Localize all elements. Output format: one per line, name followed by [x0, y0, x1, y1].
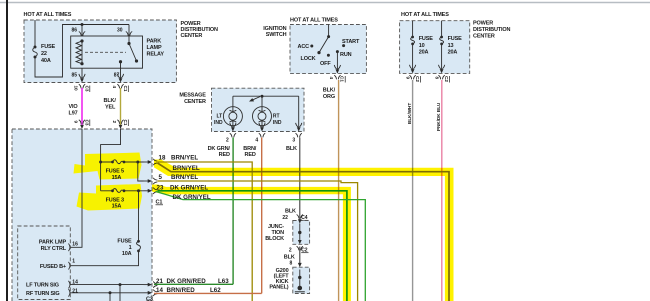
svg-text:RT: RT [273, 114, 280, 120]
power distribution center box (left) [24, 20, 176, 83]
svg-text:FUSE 5: FUSE 5 [106, 169, 124, 175]
svg-text:2: 2 [289, 247, 292, 253]
ignition output connector collar [334, 75, 340, 79]
svg-text:C3: C3 [84, 120, 89, 126]
VIO wire collar above junction block [79, 120, 85, 124]
fuse 13 connector collar [438, 75, 444, 79]
svg-text:IND: IND [214, 120, 223, 126]
wire 21 DK GRN/RED L63 [154, 283, 233, 285]
wire VIO continuation to pin 16 [70, 129, 82, 247]
label FUSE 10 20A [419, 36, 434, 56]
svg-text:14: 14 [156, 287, 163, 294]
relay mechanical link (dashed) [85, 51, 126, 53]
svg-text:BLK: BLK [285, 208, 296, 214]
svg-text:MESSAGE: MESSAGE [179, 93, 206, 99]
label FUSE 5 15A [106, 169, 124, 181]
wire BRN/YEL highlighted run [158, 163, 450, 301]
wire fuse22 feed loop [35, 20, 129, 77]
VIO wire arrow into junction block [80, 125, 84, 129]
fuse F10 element [411, 36, 415, 46]
wire BLK/WHT vertical [412, 80, 414, 301]
svg-text:FUSE 3: FUSE 3 [106, 197, 124, 203]
svg-text:BRN/RED: BRN/RED [167, 287, 196, 294]
pin 87 connector collar below box [117, 84, 123, 88]
lamp RT IND [253, 96, 272, 126]
svg-text:13: 13 [448, 43, 454, 49]
label BLK/ORG [323, 87, 336, 100]
relay switch blade [127, 36, 138, 63]
svg-text:FUSE: FUSE [419, 36, 434, 42]
label FUSE 13 20A [448, 36, 463, 56]
svg-text:BLOCK: BLOCK [265, 236, 284, 242]
node RF branch [109, 291, 112, 294]
label LT IND [214, 114, 223, 126]
pin 85 connector collar below box [79, 84, 85, 88]
svg-text:23: 23 [157, 185, 164, 192]
svg-text:16: 16 [72, 242, 78, 248]
svg-text:FUSED B+: FUSED B+ [40, 264, 66, 270]
svg-text:PANEL): PANEL) [269, 285, 288, 291]
label PARK LAMP RELAY [147, 39, 165, 58]
svg-text:LF TURN SIG: LF TURN SIG [26, 282, 59, 288]
label FUSE 1 10A [117, 239, 132, 258]
page top edge line [0, 2, 650, 4]
svg-text:RED: RED [245, 152, 256, 158]
svg-text:5: 5 [159, 174, 163, 181]
pin 1 connector collar [69, 262, 71, 270]
label G200 (LEFT KICK PANEL) [269, 268, 289, 291]
fuse 5 output branch to pin 5 exit [138, 162, 144, 181]
svg-text:BLK/WHT: BLK/WHT [407, 103, 412, 124]
svg-text:2: 2 [226, 138, 229, 144]
svg-text:PNK/DK BLU: PNK/DK BLU [436, 102, 441, 131]
svg-text:40A: 40A [41, 58, 51, 64]
message center box [212, 88, 305, 131]
pin 30 connector collar [126, 32, 132, 36]
contact ACC [310, 45, 313, 48]
svg-text:21: 21 [72, 288, 78, 294]
pin 87 lead + arrow [117, 68, 123, 82]
wire BRN/RED vertical [261, 138, 263, 294]
wire BRN/YEL pin5 run [158, 181, 358, 301]
svg-text:CENTER: CENTER [473, 33, 495, 39]
svg-text:CENTER: CENTER [181, 33, 203, 39]
relay contact 87 stub [119, 60, 122, 68]
fuse 10 output arrow [411, 69, 415, 73]
svg-text:85: 85 [72, 73, 78, 79]
ground G200 symbol [295, 270, 305, 292]
svg-text:C2: C2 [415, 76, 420, 82]
label RT IND [273, 114, 282, 126]
svg-text:FUSE: FUSE [448, 36, 463, 42]
wire VIO L97 [81, 88, 83, 126]
label BLK 8 [284, 254, 295, 266]
exit arrow pin 5 [144, 178, 158, 184]
wire BLK vertical (message center ground) [299, 138, 301, 215]
svg-text:BRN/YEL: BRN/YEL [173, 165, 200, 172]
fuse 10 connector collar [409, 75, 415, 79]
svg-text:DK GRN/YEL: DK GRN/YEL [173, 194, 211, 201]
svg-text:L63: L63 [218, 278, 229, 285]
svg-text:RUN: RUN [340, 52, 352, 58]
svg-text:21: 21 [156, 278, 163, 285]
svg-text:C2: C2 [444, 76, 449, 82]
svg-text:IND: IND [273, 120, 282, 126]
svg-text:BLK/: BLK/ [323, 87, 336, 93]
fuse F5 element [99, 160, 125, 164]
RF turn signal wire [70, 292, 143, 294]
pin 21 connector collar [69, 289, 71, 297]
node LF branch [119, 283, 122, 286]
svg-text:POWER: POWER [473, 21, 493, 27]
wire rail drop to pin 30 [128, 25, 130, 37]
label POWER DISTRIBUTION CENTER (right) [473, 21, 510, 40]
svg-text:LT: LT [217, 114, 223, 120]
ignition switch lever [317, 35, 330, 54]
exit arrow pin 14 (LF) [144, 281, 158, 287]
wire BRN/YEL pin18 straight run [158, 162, 253, 301]
label VIO L97 [69, 104, 79, 117]
svg-text:IGNITION: IGNITION [263, 26, 286, 32]
contact RUN [336, 50, 339, 53]
svg-text:3: 3 [292, 138, 295, 144]
svg-text:ACC: ACC [298, 44, 310, 50]
label C4 [301, 215, 308, 221]
svg-text:RLY CTRL: RLY CTRL [41, 246, 67, 252]
connector label 2 / C1 (bottom of BLK/YEL wire) [112, 120, 128, 127]
wire rail drop to pin 86 [81, 25, 83, 37]
svg-text:L62: L62 [210, 287, 221, 294]
svg-text:20A: 20A [448, 50, 458, 56]
svg-text:4: 4 [112, 86, 117, 89]
pin 3 connector collar [296, 133, 302, 137]
exit arrow pin 18 [144, 159, 158, 165]
connector label 9 / C3 (bottom of VIO wire) [74, 120, 90, 127]
svg-text:C1: C1 [123, 120, 128, 126]
svg-text:FUSE: FUSE [41, 44, 56, 50]
node on rail [261, 95, 264, 98]
svg-text:SWITCH: SWITCH [266, 32, 287, 38]
fuse 10 feed wire [412, 21, 414, 72]
exit arrow pin 21 (RF) [144, 290, 158, 296]
label IGNITION SWITCH [263, 26, 286, 38]
svg-text:20A: 20A [419, 50, 429, 56]
label C1 (exit connector) [156, 200, 164, 206]
svg-text:15A: 15A [112, 175, 122, 181]
svg-text:C3: C3 [146, 296, 153, 301]
svg-text:9: 9 [405, 77, 410, 80]
svg-text:VIO: VIO [69, 104, 79, 110]
label JUNC-TION BLOCK [265, 224, 284, 242]
junction block splice box [293, 221, 310, 245]
svg-text:BLK: BLK [286, 146, 297, 152]
svg-text:BRN/YEL: BRN/YEL [171, 155, 198, 162]
svg-text:1: 1 [129, 245, 132, 251]
svg-text:8: 8 [434, 77, 439, 80]
svg-text:10: 10 [74, 86, 79, 92]
wire BLK to G200 [299, 247, 301, 266]
svg-text:22: 22 [282, 215, 288, 221]
svg-text:CENTER: CENTER [184, 99, 206, 105]
svg-text:BLK: BLK [284, 254, 295, 260]
connector collar into junction block splice [297, 215, 303, 219]
svg-text:8: 8 [290, 261, 293, 267]
ignition feed wire [328, 25, 330, 37]
label FUSE 22 40A [41, 44, 56, 64]
svg-text:1: 1 [72, 259, 75, 265]
svg-text:87: 87 [114, 73, 120, 79]
svg-text:PARK: PARK [147, 39, 162, 45]
pin 2 connector collar [230, 133, 236, 137]
fuse 1 wire to FUSED B+ [70, 251, 138, 266]
svg-text:30: 30 [117, 28, 123, 34]
svg-text:DK GRN/: DK GRN/ [208, 146, 231, 152]
rail continuation arrow (to other circuits) [249, 97, 260, 102]
page left border line [6, 0, 8, 301]
label MESSAGE CENTER [179, 93, 206, 105]
fuse F22 element [33, 46, 38, 59]
contact OFF [327, 54, 330, 57]
lamp LT IND [223, 96, 242, 126]
fuse F1 element [137, 240, 141, 252]
connector label 10 / C3 (top of VIO wire) [74, 86, 90, 93]
inner module dashed box [18, 226, 71, 300]
lamp LT output arrow [230, 123, 236, 132]
fuse 5 row wire [101, 161, 144, 163]
svg-text:PARK LMP: PARK LMP [39, 240, 67, 246]
node fuse5 output [136, 161, 139, 164]
pin 85 lead + arrow [79, 68, 85, 82]
svg-text:15A: 15A [112, 204, 122, 210]
highlighter band over DK GRN/YEL run (pin 23 wire) [152, 185, 351, 301]
svg-text:FUSE: FUSE [117, 239, 132, 245]
fuse 1 feed drop [138, 191, 140, 242]
svg-text:2: 2 [112, 121, 117, 124]
svg-text:10A: 10A [122, 251, 132, 257]
pin 16 connector collar [69, 244, 71, 252]
svg-text:RED: RED [219, 152, 230, 158]
svg-text:HOT AT ALL TIMES: HOT AT ALL TIMES [24, 12, 72, 18]
svg-text:DK GRN/YEL: DK GRN/YEL [170, 185, 208, 192]
svg-text:C1: C1 [123, 86, 128, 92]
fuse F3 element [111, 189, 125, 193]
svg-text:86: 86 [72, 28, 78, 34]
exit arrow pin 23 [144, 188, 158, 194]
svg-text:L97: L97 [69, 110, 78, 116]
svg-text:BLK/: BLK/ [104, 98, 117, 104]
svg-text:22: 22 [41, 51, 47, 57]
highlighter blob over FUSE 3 [77, 184, 143, 211]
fuse 13 feed wire [441, 21, 443, 72]
highlighter blob over FUSE 5 [74, 153, 142, 180]
pin 4 connector collar [259, 133, 265, 137]
wire DK GRN/YEL highlighted run [158, 191, 347, 301]
connector label 4 / C1 (ignition) [329, 76, 345, 83]
svg-text:BRN/YEL: BRN/YEL [171, 174, 198, 181]
LF branch drop [119, 285, 121, 301]
wire PNK/DK BLU vertical [441, 80, 443, 301]
label C2 [301, 248, 308, 254]
splice wire inside junction block [298, 214, 302, 244]
svg-text:START: START [342, 39, 360, 45]
label BRN/RED [243, 146, 256, 158]
ignition RUN output wire + arrow [334, 52, 340, 74]
svg-text:RELAY: RELAY [147, 52, 165, 58]
power distribution center box (right) [400, 21, 470, 74]
wire BLK/YEL continuation jog to fuse feed [101, 129, 121, 191]
connector label 4 / C1 (top of BLK/YEL wire) [112, 86, 128, 93]
svg-text:HOT AT ALL TIMES: HOT AT ALL TIMES [401, 12, 449, 18]
label BLK/YEL [104, 98, 117, 111]
pin 86 connector collar [79, 32, 85, 36]
BLK/YEL wire arrow into junction block [119, 125, 123, 129]
ignition switch box [290, 25, 366, 74]
svg-text:RF TURN SIG: RF TURN SIG [26, 291, 60, 297]
label C3 (lower exit connector) [146, 296, 154, 301]
lamp RT output arrow [259, 123, 265, 132]
BLK/YEL wire collar above junction block [117, 120, 123, 124]
fuse F13 element [440, 36, 444, 46]
park lamp relay box [71, 36, 143, 68]
label FUSE 3 15A [106, 197, 124, 209]
wire BLK/YEL (relay 87 output) [120, 88, 122, 126]
label DK GRN/RED [208, 146, 231, 158]
wire DK GRN/RED vertical [232, 138, 234, 285]
node junction on top rail [81, 23, 84, 26]
arrow into G200 [298, 263, 302, 267]
BLK output arrow [296, 123, 302, 132]
contact START [342, 44, 345, 47]
svg-text:DISTRIBUTION: DISTRIBUTION [473, 27, 510, 33]
label PARK LMP RLY CTRL [39, 240, 67, 253]
svg-text:YEL: YEL [105, 104, 116, 110]
junction block main box [12, 129, 152, 301]
svg-text:OFF: OFF [320, 61, 331, 67]
pin 14 connector collar [69, 281, 71, 289]
wire DK GRN/YEL second run [156, 191, 366, 301]
message center BLK rail drop [298, 96, 300, 126]
connector collar below splice box [297, 246, 303, 250]
fuse 3 row wire [101, 190, 144, 192]
connector label 8 / C2 (fuse 13) [434, 76, 449, 83]
svg-text:4: 4 [255, 138, 258, 144]
svg-text:LAMP: LAMP [147, 45, 162, 51]
fuse 13 output arrow [440, 69, 444, 73]
svg-text:C1: C1 [340, 76, 345, 82]
connector label 9 / C2 (fuse 10) [405, 76, 420, 83]
svg-text:DK GRN/RED: DK GRN/RED [167, 278, 207, 285]
svg-text:LOCK: LOCK [301, 56, 316, 62]
RF branch drop [109, 293, 111, 301]
svg-text:18: 18 [159, 155, 166, 162]
highlighter band over BRN/YEL run (pin 18 second wire) [154, 160, 454, 301]
message center feed rail [233, 95, 299, 97]
svg-text:BRN/: BRN/ [243, 146, 256, 152]
wire BLK/ORG vertical [338, 80, 340, 301]
svg-text:C3: C3 [84, 86, 89, 92]
svg-text:ORG: ORG [323, 94, 335, 100]
svg-text:4: 4 [329, 77, 334, 80]
svg-text:9: 9 [74, 121, 79, 124]
G200 box [293, 267, 310, 293]
svg-text:10: 10 [419, 43, 425, 49]
svg-text:HOT AT ALL TIMES: HOT AT ALL TIMES [290, 17, 338, 23]
relay coil [76, 39, 84, 65]
LF turn signal wire [70, 284, 143, 286]
wire 14 BRN/RED L62 [154, 292, 262, 294]
node fuse3 output [137, 189, 140, 192]
label POWER DISTRIBUTION CENTER (left) [181, 21, 218, 39]
